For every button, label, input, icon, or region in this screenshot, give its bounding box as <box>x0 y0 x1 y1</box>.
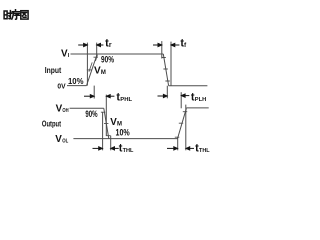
svg-text:THL: THL <box>199 148 210 154</box>
svg-text:10%: 10% <box>68 76 84 86</box>
svg-text:PLH: PLH <box>195 97 207 103</box>
svg-text:Input: Input <box>45 66 62 75</box>
svg-text:V: V <box>55 134 62 145</box>
svg-text:10%: 10% <box>116 127 130 137</box>
svg-text:90%: 90% <box>101 54 114 64</box>
svg-text:r: r <box>109 42 112 49</box>
svg-text:90%: 90% <box>85 109 97 119</box>
svg-text:OH: OH <box>62 108 68 114</box>
svg-text:I: I <box>68 53 70 59</box>
svg-text:PHL: PHL <box>120 97 132 103</box>
svg-text:f: f <box>184 42 187 49</box>
svg-text:Output: Output <box>42 120 61 129</box>
svg-text:THL: THL <box>123 148 134 154</box>
svg-text:OL: OL <box>62 139 69 145</box>
svg-text:0V: 0V <box>57 81 65 90</box>
svg-text:M: M <box>101 70 106 76</box>
